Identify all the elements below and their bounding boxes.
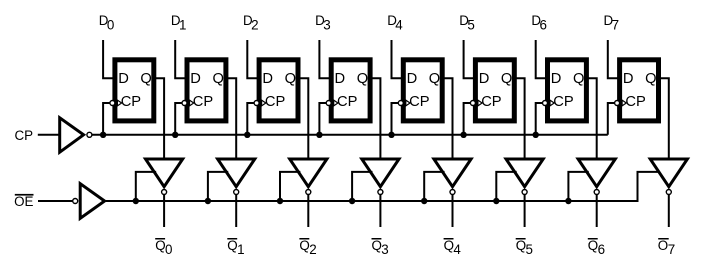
svg-text:D: D <box>190 71 201 87</box>
svg-text:CP: CP <box>121 94 142 110</box>
svg-text:6: 6 <box>598 242 605 257</box>
svg-text:1: 1 <box>179 17 186 32</box>
svg-text:D: D <box>479 71 490 87</box>
svg-text:Q: Q <box>429 71 440 87</box>
svg-text:CP: CP <box>625 94 646 110</box>
svg-text:2: 2 <box>309 242 316 257</box>
svg-text:7: 7 <box>668 242 675 257</box>
svg-text:5: 5 <box>526 242 533 257</box>
svg-text:4: 4 <box>395 17 403 32</box>
svg-text:Q: Q <box>645 71 656 87</box>
svg-text:CP: CP <box>481 94 502 110</box>
svg-text:5: 5 <box>467 17 474 32</box>
svg-text:CP: CP <box>553 94 574 110</box>
svg-text:Q: Q <box>501 71 512 87</box>
svg-text:CP: CP <box>337 94 358 110</box>
svg-text:O: O <box>658 238 668 253</box>
svg-text:CP: CP <box>265 94 286 110</box>
svg-text:D: D <box>407 71 418 87</box>
svg-text:Q: Q <box>357 71 368 87</box>
svg-text:CP: CP <box>15 128 34 143</box>
svg-text:Q: Q <box>213 71 224 87</box>
svg-text:D: D <box>551 71 562 87</box>
svg-text:OE: OE <box>14 194 33 209</box>
svg-text:0: 0 <box>165 242 172 257</box>
svg-text:0: 0 <box>107 17 114 32</box>
svg-text:4: 4 <box>453 242 461 257</box>
svg-text:3: 3 <box>323 17 330 32</box>
svg-text:D: D <box>335 71 346 87</box>
svg-text:6: 6 <box>540 17 547 32</box>
svg-text:Q: Q <box>140 71 151 87</box>
svg-text:D: D <box>623 71 634 87</box>
svg-text:Q: Q <box>573 71 584 87</box>
svg-text:3: 3 <box>381 242 388 257</box>
svg-text:Q: Q <box>285 71 296 87</box>
svg-text:2: 2 <box>251 17 258 32</box>
svg-text:D: D <box>262 71 273 87</box>
svg-text:1: 1 <box>237 242 244 257</box>
svg-text:7: 7 <box>612 17 619 32</box>
svg-text:CP: CP <box>193 94 214 110</box>
svg-text:CP: CP <box>409 94 430 110</box>
svg-text:D: D <box>118 71 129 87</box>
